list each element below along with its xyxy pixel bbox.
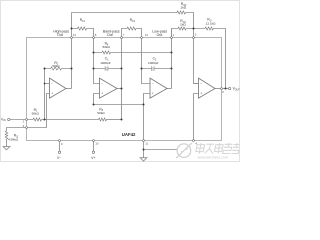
wire pin 11 to ground and supply row xyxy=(144,141,178,157)
resistor R3 50k xyxy=(99,118,107,121)
wire A4 plus input to bottom pin xyxy=(194,94,199,141)
svg-text:2kΩ: 2kΩ xyxy=(181,5,187,9)
watermark chinese text xyxy=(196,143,240,154)
wire top rail HP to RQ2 xyxy=(72,12,178,14)
wire HP column pin 13 xyxy=(71,13,73,89)
svg-text:−: − xyxy=(101,81,103,85)
svg-text:50kΩ: 50kΩ xyxy=(32,112,40,116)
wire A1 output to HP column xyxy=(66,88,72,90)
wire RQ2 right to node xyxy=(186,13,194,29)
junction C2 right at LP column xyxy=(171,68,173,70)
junction C1 left at pin 8 node xyxy=(93,68,95,70)
ground symbol pin 11 xyxy=(140,158,147,161)
svg-text:1000pF: 1000pF xyxy=(100,61,111,65)
op-amp A1 xyxy=(50,78,67,98)
wire RQ to ground xyxy=(6,139,8,147)
IC body UAF42 box xyxy=(27,38,222,141)
pin 3 circle xyxy=(26,127,28,129)
svg-text:Out: Out xyxy=(107,33,113,37)
wire A2 plus ground jog xyxy=(94,94,144,105)
wire A4 output to VOUT xyxy=(215,88,228,90)
wire LP column pin 1 xyxy=(171,29,173,89)
svg-text:www.elecfans.com: www.elecfans.com xyxy=(198,156,229,160)
svg-text:Out: Out xyxy=(57,33,63,37)
terminal V+ xyxy=(92,151,94,153)
resistor R1 50k input xyxy=(33,118,42,121)
pin 11 GND circle xyxy=(143,140,145,142)
junction C2 left at pin 14 node xyxy=(141,68,143,70)
junction RG feedback at VOUT wire xyxy=(225,88,227,90)
wire pin 8 column xyxy=(94,38,100,84)
resistor R2 50k above A1 xyxy=(51,67,62,70)
wire RF1 leads xyxy=(72,29,94,38)
junction ground node below pin 11 xyxy=(143,149,145,151)
pin 13 HP OUT circle xyxy=(71,37,73,39)
pin 9 V- circle xyxy=(59,140,61,142)
wire R4 row pin8 node to LP node xyxy=(94,52,172,54)
pin 14 circle xyxy=(141,37,143,39)
wire input row pin 2 with R1 and R3 xyxy=(10,119,33,121)
pin 7 BP OUT circle xyxy=(121,37,123,39)
junction HP node to RF1 xyxy=(71,28,73,30)
resistor R4 50k long row xyxy=(102,51,111,54)
wire pin 5 column xyxy=(194,29,199,84)
junction R4 left at pin 8 node xyxy=(93,52,95,54)
svg-text:−: − xyxy=(200,81,202,85)
resistor RQ external xyxy=(5,131,8,139)
resistor RQ2 xyxy=(177,11,186,14)
junction ground jog at A3 plus column xyxy=(143,104,145,106)
wire R3 to BP column xyxy=(107,119,122,121)
capacitor C2 dielectric xyxy=(152,67,154,71)
pin 2 input circle xyxy=(26,119,28,121)
junction A2 plus drop at ground jog xyxy=(93,104,95,106)
wire A1 inverting column xyxy=(44,69,46,120)
pin 8 circle xyxy=(93,37,95,39)
wire R2 leads xyxy=(45,68,72,70)
svg-text:10: 10 xyxy=(95,142,99,146)
wire pin 9 to V- terminal xyxy=(59,141,61,151)
capacitor C1 dielectric xyxy=(106,67,108,71)
junction R4 right at LP column xyxy=(171,52,173,54)
op-amp A2 xyxy=(100,78,118,98)
svg-text:Out: Out xyxy=(157,33,163,37)
wire A3 output xyxy=(167,88,172,90)
wire RQ1 leads pin 1 xyxy=(172,29,194,38)
image border frame xyxy=(1,1,240,162)
op-amp A3 xyxy=(150,78,167,98)
svg-text:14: 14 xyxy=(145,33,149,37)
op-amp A4 aux xyxy=(199,78,216,98)
watermark logo circle xyxy=(177,144,191,158)
junction RQ1 RQ2 RG node at pin 5 xyxy=(193,28,195,30)
wire pin 14 column xyxy=(142,38,151,84)
svg-text:−: − xyxy=(152,81,154,85)
junction R3 right at BP column xyxy=(121,119,123,121)
svg-text:50kΩ: 50kΩ xyxy=(103,45,111,49)
terminal V- xyxy=(58,151,60,153)
svg-text:+: + xyxy=(101,92,103,96)
svg-text:13: 13 xyxy=(73,33,77,37)
wire A2 output xyxy=(117,88,122,90)
svg-text:+: + xyxy=(51,92,53,96)
wire pin 3 external row xyxy=(7,128,27,132)
capacitor C2 plates xyxy=(151,66,154,70)
svg-text:11: 11 xyxy=(145,141,148,145)
wire A3 plus to ground pin 11 xyxy=(144,94,151,141)
svg-text:50kΩ: 50kΩ xyxy=(97,111,105,115)
svg-text:12.1kΩ: 12.1kΩ xyxy=(206,21,217,25)
capacitor C1 wires xyxy=(94,68,122,70)
resistor RF1 xyxy=(78,27,87,30)
resistor RG xyxy=(205,27,214,30)
pin 10 V+ circle xyxy=(93,140,95,142)
pin 6 AUX OUT circle xyxy=(221,88,223,90)
junction R2 right at HP column xyxy=(71,68,73,70)
svg-text:V+: V+ xyxy=(91,156,95,160)
wire A4 minus input xyxy=(194,83,199,85)
junction A2 output at BP column xyxy=(121,88,123,90)
resistor RQ1 xyxy=(178,27,186,30)
wire pin 10 to V+ terminal xyxy=(93,141,95,151)
junction R1 right at A1 inverting column xyxy=(44,119,46,121)
svg-text:−: − xyxy=(51,81,53,85)
junction A1 inverting node at R2 left xyxy=(44,68,46,70)
wire RG leads and feedback drop to VOUT xyxy=(194,29,226,89)
capacitor C2 wires xyxy=(142,68,172,70)
junction A1 minus input tee xyxy=(44,83,46,85)
svg-text:+: + xyxy=(152,92,154,96)
resistor RF2 xyxy=(127,27,136,30)
wire RF2 leads pins 7 14 xyxy=(122,29,142,38)
svg-text:1000pF: 1000pF xyxy=(148,61,159,65)
ground symbol RQ xyxy=(3,147,10,150)
wire R1 to R3 xyxy=(42,119,99,121)
junction C1 right at BP column xyxy=(121,68,123,70)
wire A1 plus input to pin 3 xyxy=(27,94,50,128)
pin 4 circle xyxy=(193,140,195,142)
svg-text:V−: V− xyxy=(57,156,61,160)
terminal VOUT xyxy=(228,87,230,89)
svg-text:4.99kΩ: 4.99kΩ xyxy=(8,138,19,142)
wire BP column pin 7 xyxy=(121,38,123,120)
svg-text:UAF42: UAF42 xyxy=(122,132,136,137)
capacitor C1 plates xyxy=(105,66,108,70)
pin 5 circle xyxy=(193,37,195,39)
svg-text:2kΩ: 2kΩ xyxy=(180,22,186,26)
wire A1 minus input xyxy=(45,83,50,85)
svg-text:50kΩ: 50kΩ xyxy=(52,64,60,68)
svg-text:+: + xyxy=(200,92,202,96)
terminal VIN xyxy=(8,118,10,120)
pin 1 LP OUT circle xyxy=(171,37,173,39)
